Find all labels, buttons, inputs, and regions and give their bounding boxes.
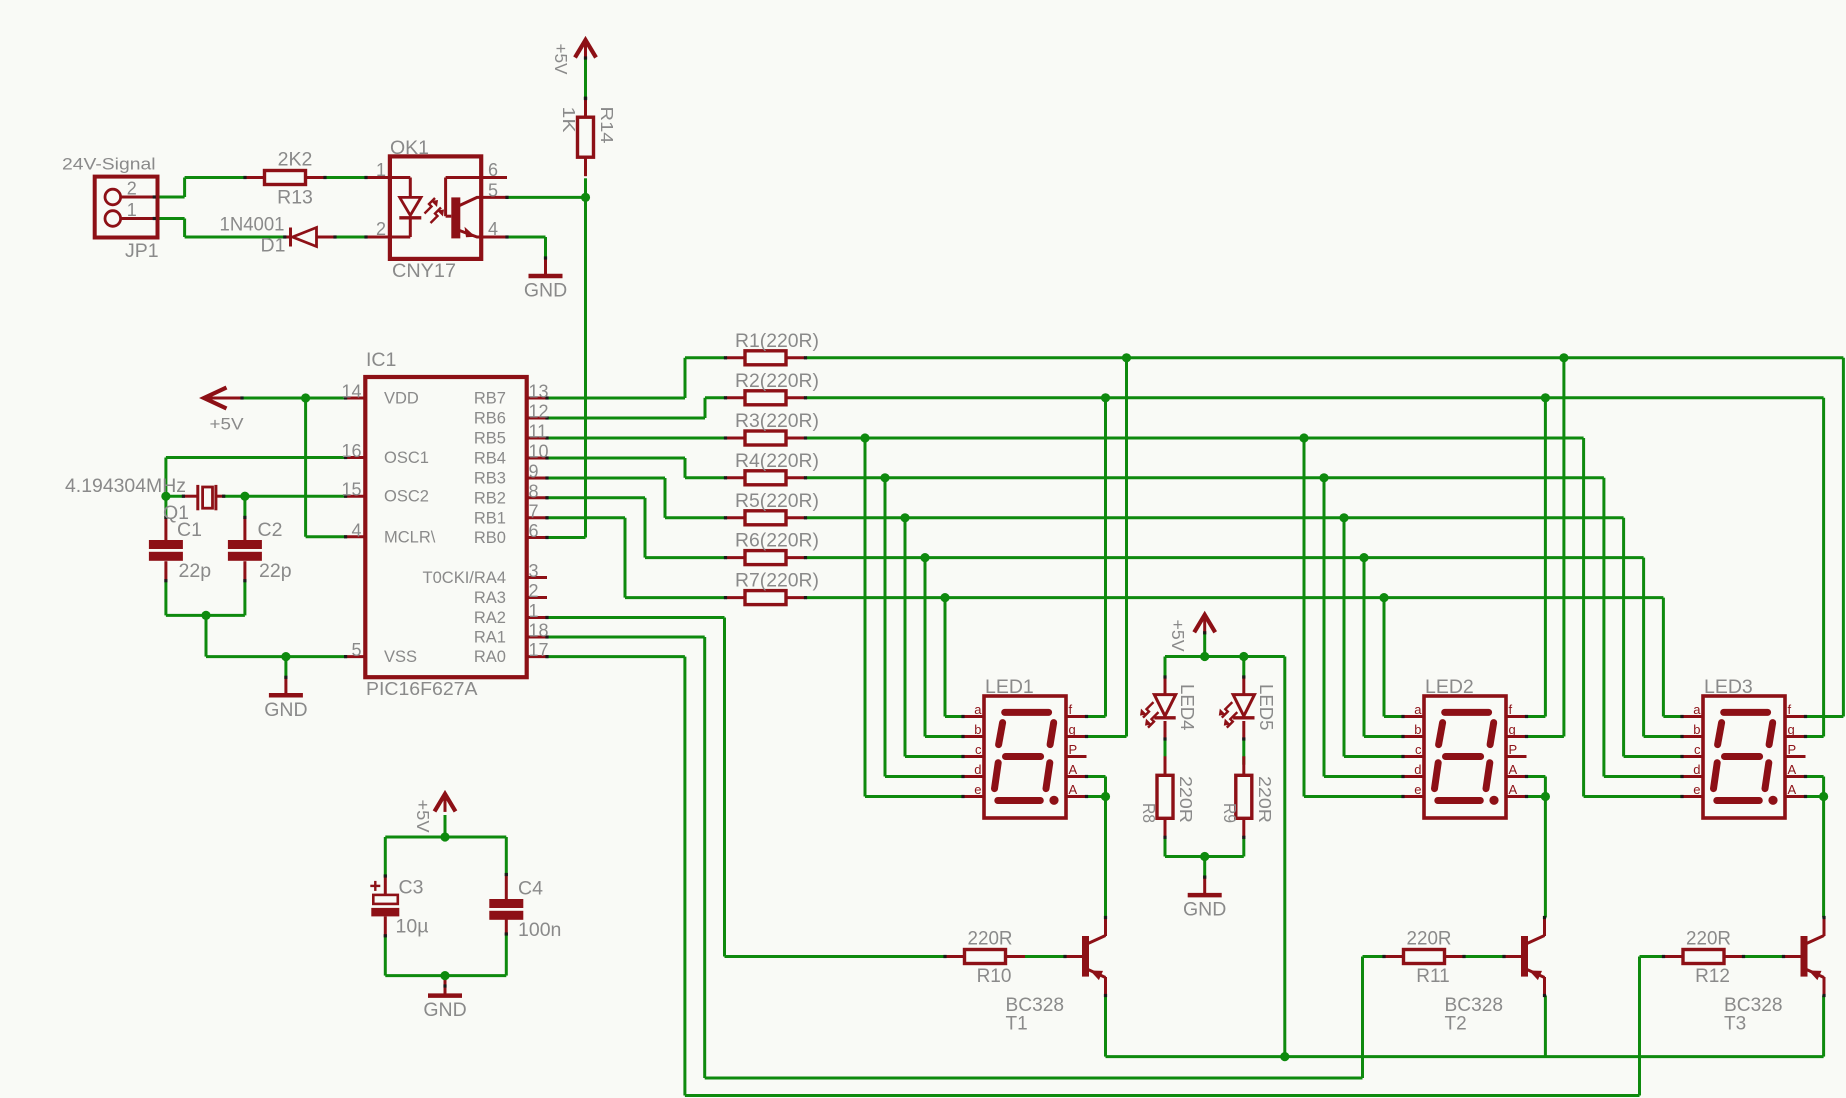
- svg-text:e: e: [1693, 782, 1700, 797]
- svg-text:MCLR\: MCLR\: [384, 528, 436, 546]
- svg-text:R13: R13: [277, 187, 313, 209]
- svg-text:+5V: +5V: [1168, 620, 1188, 652]
- svg-text:VDD: VDD: [384, 390, 419, 408]
- svg-text:16: 16: [341, 441, 361, 461]
- svg-text:RB7: RB7: [474, 390, 506, 408]
- svg-text:R6(220R): R6(220R): [735, 530, 819, 552]
- svg-text:LED2: LED2: [1425, 676, 1474, 698]
- svg-text:g: g: [1069, 722, 1076, 737]
- svg-text:T0CKI/RA4: T0CKI/RA4: [423, 569, 506, 587]
- svg-text:OK1: OK1: [390, 137, 429, 159]
- svg-text:R10: R10: [977, 966, 1012, 987]
- svg-text:OSC2: OSC2: [384, 488, 429, 506]
- svg-text:12: 12: [529, 402, 549, 422]
- svg-text:15: 15: [341, 480, 361, 500]
- svg-text:LED3: LED3: [1704, 676, 1753, 698]
- svg-text:4: 4: [351, 520, 361, 540]
- svg-text:LED1: LED1: [985, 676, 1034, 698]
- svg-text:GND: GND: [264, 699, 307, 721]
- svg-text:2K2: 2K2: [278, 149, 313, 171]
- svg-text:f: f: [1788, 702, 1792, 717]
- svg-text:b: b: [1693, 722, 1700, 737]
- svg-text:220R: 220R: [1686, 929, 1731, 950]
- svg-text:GND: GND: [524, 280, 567, 302]
- svg-text:4.194304MHz: 4.194304MHz: [65, 475, 186, 497]
- svg-text:b: b: [1414, 722, 1421, 737]
- svg-text:8: 8: [529, 481, 539, 501]
- svg-text:GND: GND: [1183, 899, 1226, 921]
- svg-text:A: A: [1509, 762, 1518, 777]
- svg-text:+5V: +5V: [413, 800, 433, 833]
- svg-text:g: g: [1509, 722, 1516, 737]
- svg-text:22p: 22p: [259, 560, 292, 582]
- svg-text:P: P: [1069, 742, 1078, 757]
- svg-text:a: a: [1693, 702, 1701, 717]
- svg-text:1: 1: [376, 160, 386, 180]
- svg-text:9: 9: [529, 462, 539, 482]
- svg-text:LED4: LED4: [1177, 684, 1197, 731]
- svg-text:18: 18: [529, 621, 549, 641]
- svg-text:C2: C2: [258, 519, 283, 541]
- svg-text:RA0: RA0: [474, 648, 506, 666]
- svg-text:1: 1: [529, 601, 539, 621]
- svg-text:CNY17: CNY17: [392, 260, 456, 282]
- svg-text:6: 6: [529, 521, 539, 541]
- svg-text:D1: D1: [261, 235, 286, 257]
- svg-text:7: 7: [529, 501, 539, 521]
- svg-text:13: 13: [529, 382, 549, 402]
- svg-text:R8: R8: [1139, 803, 1159, 823]
- svg-text:100n: 100n: [518, 919, 561, 941]
- svg-text:22p: 22p: [179, 560, 212, 582]
- svg-text:LED5: LED5: [1256, 684, 1276, 731]
- svg-text:e: e: [974, 782, 981, 797]
- svg-text:220R: 220R: [1255, 776, 1275, 823]
- svg-text:RB1: RB1: [474, 509, 506, 527]
- svg-text:e: e: [1414, 782, 1421, 797]
- svg-text:GND: GND: [423, 999, 466, 1021]
- svg-text:5: 5: [351, 640, 361, 660]
- svg-text:R2(220R): R2(220R): [735, 370, 819, 392]
- svg-text:a: a: [974, 702, 982, 717]
- svg-text:P: P: [1509, 742, 1518, 757]
- svg-text:RB2: RB2: [474, 489, 506, 507]
- svg-text:d: d: [974, 762, 981, 777]
- svg-text:R9: R9: [1220, 803, 1240, 823]
- svg-text:220R: 220R: [1407, 929, 1452, 950]
- svg-text:VSS: VSS: [384, 648, 417, 666]
- svg-text:f: f: [1509, 702, 1513, 717]
- svg-text:RB4: RB4: [474, 450, 506, 468]
- svg-text:3: 3: [529, 561, 539, 581]
- svg-text:1K: 1K: [559, 107, 579, 133]
- svg-text:4: 4: [488, 219, 498, 239]
- svg-text:T2: T2: [1445, 1014, 1467, 1035]
- svg-text:d: d: [1693, 762, 1700, 777]
- svg-text:a: a: [1414, 702, 1422, 717]
- svg-text:R12: R12: [1695, 966, 1730, 987]
- svg-text:JP1: JP1: [125, 240, 159, 262]
- svg-text:A: A: [1069, 782, 1078, 797]
- svg-text:220R: 220R: [1176, 776, 1196, 823]
- svg-text:5: 5: [488, 181, 498, 201]
- svg-text:24V-Signal: 24V-Signal: [62, 156, 156, 174]
- svg-text:2: 2: [127, 179, 137, 199]
- svg-text:RA1: RA1: [474, 629, 506, 647]
- svg-text:PIC16F627A: PIC16F627A: [366, 679, 478, 699]
- svg-text:c: c: [1415, 742, 1422, 757]
- svg-text:d: d: [1414, 762, 1421, 777]
- svg-text:b: b: [974, 722, 981, 737]
- svg-text:f: f: [1069, 702, 1073, 717]
- svg-text:6: 6: [488, 160, 498, 180]
- svg-text:R4(220R): R4(220R): [735, 450, 819, 472]
- svg-text:RB6: RB6: [474, 410, 506, 428]
- svg-text:1N4001: 1N4001: [220, 214, 285, 236]
- svg-text:17: 17: [529, 640, 549, 660]
- svg-text:C4: C4: [518, 878, 543, 900]
- svg-text:P: P: [1788, 742, 1797, 757]
- svg-text:RA2: RA2: [474, 609, 506, 627]
- svg-text:A: A: [1509, 782, 1518, 797]
- svg-text:R5(220R): R5(220R): [735, 490, 819, 512]
- svg-text:A: A: [1788, 762, 1797, 777]
- svg-text:220R: 220R: [968, 929, 1013, 950]
- svg-text:A: A: [1069, 762, 1078, 777]
- svg-text:R1(220R): R1(220R): [735, 330, 819, 352]
- svg-text:RB3: RB3: [474, 470, 506, 488]
- svg-text:c: c: [1694, 742, 1701, 757]
- svg-text:2: 2: [376, 219, 386, 239]
- svg-text:IC1: IC1: [366, 349, 396, 371]
- svg-text:1: 1: [127, 200, 137, 220]
- svg-text:T3: T3: [1724, 1014, 1746, 1035]
- svg-text:10: 10: [529, 442, 549, 462]
- svg-text:g: g: [1788, 722, 1795, 737]
- svg-text:c: c: [975, 742, 982, 757]
- svg-text:+5V: +5V: [551, 44, 571, 75]
- svg-text:+5V: +5V: [210, 415, 245, 434]
- svg-text:10µ: 10µ: [396, 916, 429, 938]
- svg-text:R14: R14: [597, 107, 617, 144]
- svg-text:14: 14: [341, 382, 361, 402]
- svg-text:C3: C3: [399, 877, 424, 899]
- svg-text:2: 2: [529, 581, 539, 601]
- svg-text:R3(220R): R3(220R): [735, 410, 819, 432]
- svg-text:RB0: RB0: [474, 529, 506, 547]
- svg-text:11: 11: [529, 422, 548, 442]
- svg-text:OSC1: OSC1: [384, 449, 429, 467]
- svg-text:RA3: RA3: [474, 589, 506, 607]
- svg-text:C1: C1: [177, 519, 202, 541]
- svg-text:R7(220R): R7(220R): [735, 570, 819, 592]
- svg-text:T1: T1: [1006, 1014, 1028, 1035]
- svg-text:RB5: RB5: [474, 430, 506, 448]
- svg-text:R11: R11: [1416, 966, 1449, 987]
- svg-text:A: A: [1788, 782, 1797, 797]
